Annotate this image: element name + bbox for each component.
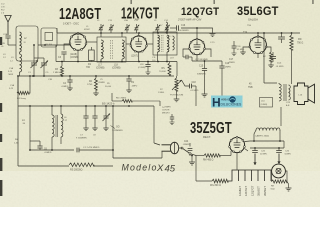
antenna coil L2 xyxy=(20,32,28,52)
IF transformer T2 xyxy=(147,32,177,62)
ground xyxy=(196,27,215,36)
tuning capacitor C1 xyxy=(28,58,38,76)
arrow xyxy=(253,154,256,166)
IF transformer T1 xyxy=(86,33,126,62)
label Modelo X 45 xyxy=(122,163,176,175)
ground xyxy=(202,94,208,97)
fold tick xyxy=(312,0,313,4)
label V2 xyxy=(131,56,138,58)
wire xyxy=(250,107,284,149)
wire xyxy=(240,33,271,58)
wire xyxy=(237,149,248,170)
wire B+ top bus xyxy=(57,32,300,34)
resistor RS 20000 xyxy=(69,163,113,172)
label BS-1423-b xyxy=(102,102,115,106)
wire grid cap xyxy=(181,28,197,39)
wire xyxy=(191,154,204,157)
wire xyxy=(126,33,139,62)
arrow xyxy=(277,154,280,165)
label small xyxy=(158,89,165,94)
capacitor C10 xyxy=(145,61,150,75)
capacitor C19 xyxy=(219,61,231,99)
film edge mark xyxy=(0,134,2,142)
wire xyxy=(29,106,74,151)
tube V5 35Z5GT xyxy=(229,136,246,152)
wire plate lead xyxy=(264,33,277,83)
capacitor C2B xyxy=(1,36,11,48)
shield box A xyxy=(16,26,38,61)
wire xyxy=(112,93,160,106)
capacitor C4 xyxy=(61,75,73,91)
resistor RM 495 xyxy=(203,151,231,162)
filter capacitor C25 xyxy=(252,148,267,156)
label tube V5 35Z5GT xyxy=(190,119,232,139)
capacitor C17 xyxy=(183,55,208,61)
wire heater bus xyxy=(196,156,212,182)
oscillator transformer L4 L6 xyxy=(22,106,68,150)
wire box right xyxy=(112,106,114,158)
wire box left xyxy=(17,76,19,166)
label GO trimmer xyxy=(111,126,124,133)
film edge mark xyxy=(0,180,2,196)
label tube V1 12A8GT xyxy=(59,5,101,25)
grid capacitor C 17-470 xyxy=(77,147,114,152)
trimmer capacitor CT2 xyxy=(108,20,114,33)
wire grid lead xyxy=(38,44,70,46)
paper tone xyxy=(0,0,320,171)
tuning capacitor C5 xyxy=(41,58,50,76)
trimmer capacitor CT1 xyxy=(97,20,104,33)
label box L10 xyxy=(260,98,273,108)
trimmer capacitor GO xyxy=(103,106,111,131)
resistor RE 50 xyxy=(271,171,288,191)
wire xyxy=(17,75,31,93)
capacitor C14 xyxy=(162,106,175,125)
label small xyxy=(9,84,15,90)
capacitor C30 xyxy=(231,41,244,56)
resistor R4 xyxy=(17,91,29,100)
label C23 xyxy=(286,102,291,107)
label small xyxy=(210,42,215,44)
heater string labels xyxy=(238,185,267,196)
label tube V4 35L6GT xyxy=(237,6,279,22)
label C17-2 xyxy=(229,59,235,64)
padder capacitor C8 xyxy=(92,106,97,137)
label small xyxy=(3,54,7,59)
tube V4 35L6GT xyxy=(249,36,267,54)
label small xyxy=(166,34,172,38)
wire xyxy=(192,57,222,62)
field coil CAMPO xyxy=(254,128,280,141)
coil L7 xyxy=(160,22,168,33)
wire rect output xyxy=(245,140,284,142)
antenna xyxy=(5,16,11,36)
filter capacitor C26 xyxy=(276,148,291,156)
trimmer capacitor CT5 xyxy=(154,20,160,33)
potentiometer volume xyxy=(170,76,183,97)
resistor RD 790 xyxy=(290,33,304,83)
wire xyxy=(56,28,57,62)
wire box bottom xyxy=(18,165,69,167)
label small xyxy=(247,24,251,27)
wire xyxy=(176,62,178,77)
AC plug xyxy=(162,142,183,154)
resistor RC cathode xyxy=(263,52,274,68)
resistor R2 175 xyxy=(87,76,99,96)
capacitor C2 coupling xyxy=(270,52,284,68)
wire xyxy=(154,106,160,145)
wire box top xyxy=(18,105,154,107)
label T1 xyxy=(96,65,121,70)
wire AVC bus xyxy=(18,75,174,77)
resistor R3 2MEG xyxy=(53,61,64,76)
label small xyxy=(3,33,8,36)
wire xyxy=(183,49,211,61)
label small xyxy=(222,99,227,101)
label C1A xyxy=(8,67,14,76)
switch S xyxy=(181,147,191,155)
label tube V3 12Q7GT xyxy=(178,6,220,21)
shield box B xyxy=(41,28,57,47)
output transformer T3 xyxy=(279,83,292,101)
fold tick xyxy=(131,0,132,4)
label La xyxy=(14,139,19,145)
capacitor C15 xyxy=(197,61,207,94)
trimmer capacitor CT3 xyxy=(124,19,130,33)
pilot lamp xyxy=(272,164,286,178)
capacitor C16 xyxy=(170,25,189,32)
film edge mark xyxy=(0,71,2,80)
resistor WG 800 xyxy=(210,179,228,187)
fold tick xyxy=(214,0,215,4)
label small xyxy=(98,79,106,84)
label small xyxy=(138,64,146,69)
film edge mark xyxy=(0,158,2,171)
label small xyxy=(105,83,112,88)
resistor R1 700 xyxy=(86,47,94,69)
trimmer capacitor CT6 xyxy=(164,20,170,33)
capacitor C9 xyxy=(126,76,137,93)
wire xyxy=(113,151,162,158)
label small xyxy=(84,26,91,31)
capacitor C18 xyxy=(182,80,199,92)
label tube V2 12K7GT xyxy=(121,4,159,22)
label small xyxy=(152,57,156,62)
label small xyxy=(48,79,53,81)
ground xyxy=(189,156,195,166)
tube V1 12A8GT xyxy=(69,33,87,51)
coil L19 xyxy=(170,36,174,60)
wire xyxy=(64,33,78,62)
film edge mark xyxy=(0,103,2,112)
heater filament loops xyxy=(228,170,272,181)
label TTA xyxy=(243,31,248,34)
resistor R6 xyxy=(112,98,160,103)
resistor RS diode load xyxy=(159,62,171,77)
wire screen bus xyxy=(56,61,177,63)
corner text marks xyxy=(1,4,5,15)
label 45 TNB xyxy=(248,84,253,89)
trimmer capacitor CT4 xyxy=(134,20,139,33)
padder capacitor C7 xyxy=(76,106,89,140)
capacitor C3 xyxy=(58,52,67,62)
label V1 xyxy=(70,53,79,59)
logo stamp xyxy=(211,96,243,110)
wire xyxy=(8,44,16,46)
tube V2 12K7GT xyxy=(130,35,148,52)
ground xyxy=(286,182,292,192)
capacitor C6 xyxy=(30,141,52,154)
wire xyxy=(174,86,196,106)
oscillator coil L3 xyxy=(10,52,22,76)
wire xyxy=(33,44,45,77)
film edge mark xyxy=(0,37,2,45)
speaker xyxy=(294,83,315,105)
tube V3 12Q7GT xyxy=(189,38,206,55)
capacitor C24 xyxy=(183,141,193,156)
capacitor C20 xyxy=(278,33,285,43)
